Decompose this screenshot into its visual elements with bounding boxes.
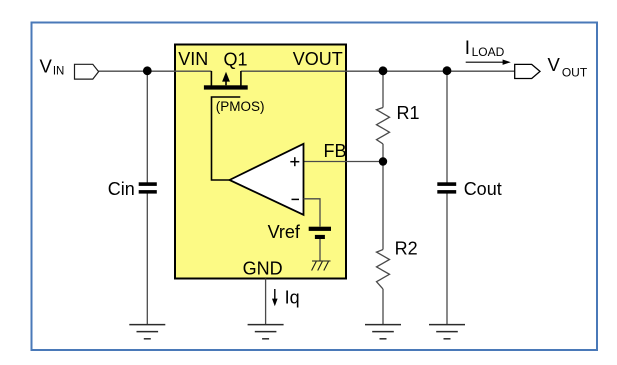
wire: VIN rail from input connector to Q1 source [98,70,211,72]
ground under Cin [129,325,165,339]
Q1 substrate arrow [225,79,227,85]
resistor R1 [377,108,390,144]
arrow Iq [274,289,276,300]
output port connector VOUT [515,64,540,78]
Q1 channel bar [204,85,248,89]
Q1 source terminal [210,71,212,86]
wire: FB node to R2 top [382,162,384,250]
svg-text:VIN: VIN [178,49,208,69]
wire: Cin branch lower [146,193,148,324]
op-amp U1 error amplifier [230,144,304,215]
svg-text:FB: FB [324,141,347,161]
wire: FB feedback from op-amp + input to divider [304,161,384,163]
op-amp - input mark [292,198,300,200]
capacitor Cout [437,182,456,186]
svg-text:Cin: Cin [108,179,135,199]
wire: VOUT rail from Q1 drain to output connector [241,70,515,72]
svg-text:R1: R1 [397,103,420,123]
wire: R1 bottom lead to FB node [382,144,384,162]
svg-text:Cout: Cout [464,179,502,199]
input port connector VIN [75,64,99,79]
wire: R2 bottom lead to ground [382,289,384,324]
svg-text:VOUT: VOUT [293,49,343,69]
svg-text:Iq: Iq [285,288,300,308]
wire: R1 top lead [382,71,384,107]
op-amp + input mark [290,157,299,166]
wire: Cin branch upper [146,71,148,183]
wire: GND pin lead [265,279,267,325]
svg-text:R2: R2 [395,239,418,259]
regulator IC body U1 [175,45,346,279]
wire: Cout branch lower [446,193,448,324]
ground under R2 [365,325,401,339]
wire: op-amp - input to Vref [304,199,321,227]
svg-text:(PMOS): (PMOS) [216,99,265,114]
capacitor Cin [139,182,157,186]
node: VIN junction [143,66,152,75]
svg-text:GND: GND [243,258,283,278]
wire: Vref to signal ground [319,239,321,261]
Q1 gate line [212,97,241,180]
ground under Cout [429,325,465,339]
node: FB junction [379,157,387,165]
svg-text:Vref: Vref [268,222,301,242]
wire: Cout branch upper [446,71,448,183]
node: Cout junction [443,66,452,75]
arrow I_LOAD [466,61,505,63]
node: R1 top junction [379,66,388,75]
transistor Q1 (PMOS pass element) [204,71,248,180]
ground under GND pin [248,325,284,339]
svg-text:Q1: Q1 [224,49,248,69]
signal ground (hatched) [312,261,331,271]
resistor R2 [377,250,390,290]
battery Vref reference [309,227,331,231]
Q1 drain terminal [240,71,242,86]
